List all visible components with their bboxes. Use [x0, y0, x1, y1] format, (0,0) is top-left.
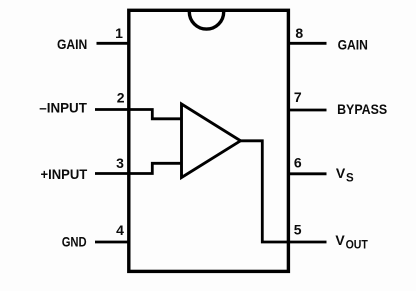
svg-text:GAIN: GAIN: [57, 36, 87, 52]
svg-text:3: 3: [116, 155, 124, 171]
svg-text:4: 4: [116, 222, 124, 238]
svg-text:2: 2: [117, 89, 125, 105]
svg-text:–INPUT: –INPUT: [39, 99, 87, 115]
svg-text:GAIN: GAIN: [338, 36, 368, 52]
svg-text:6: 6: [294, 154, 302, 170]
svg-text:5: 5: [294, 222, 302, 238]
svg-text:S: S: [346, 173, 354, 185]
svg-text:OUT: OUT: [346, 239, 368, 251]
svg-text:V: V: [335, 232, 345, 248]
svg-text:BYPASS: BYPASS: [337, 101, 387, 117]
svg-text:8: 8: [295, 25, 303, 41]
svg-text:7: 7: [294, 89, 302, 105]
svg-text:V: V: [336, 165, 346, 181]
svg-text:1: 1: [115, 25, 123, 41]
svg-text:+INPUT: +INPUT: [41, 166, 88, 182]
svg-text:GND: GND: [62, 234, 87, 250]
